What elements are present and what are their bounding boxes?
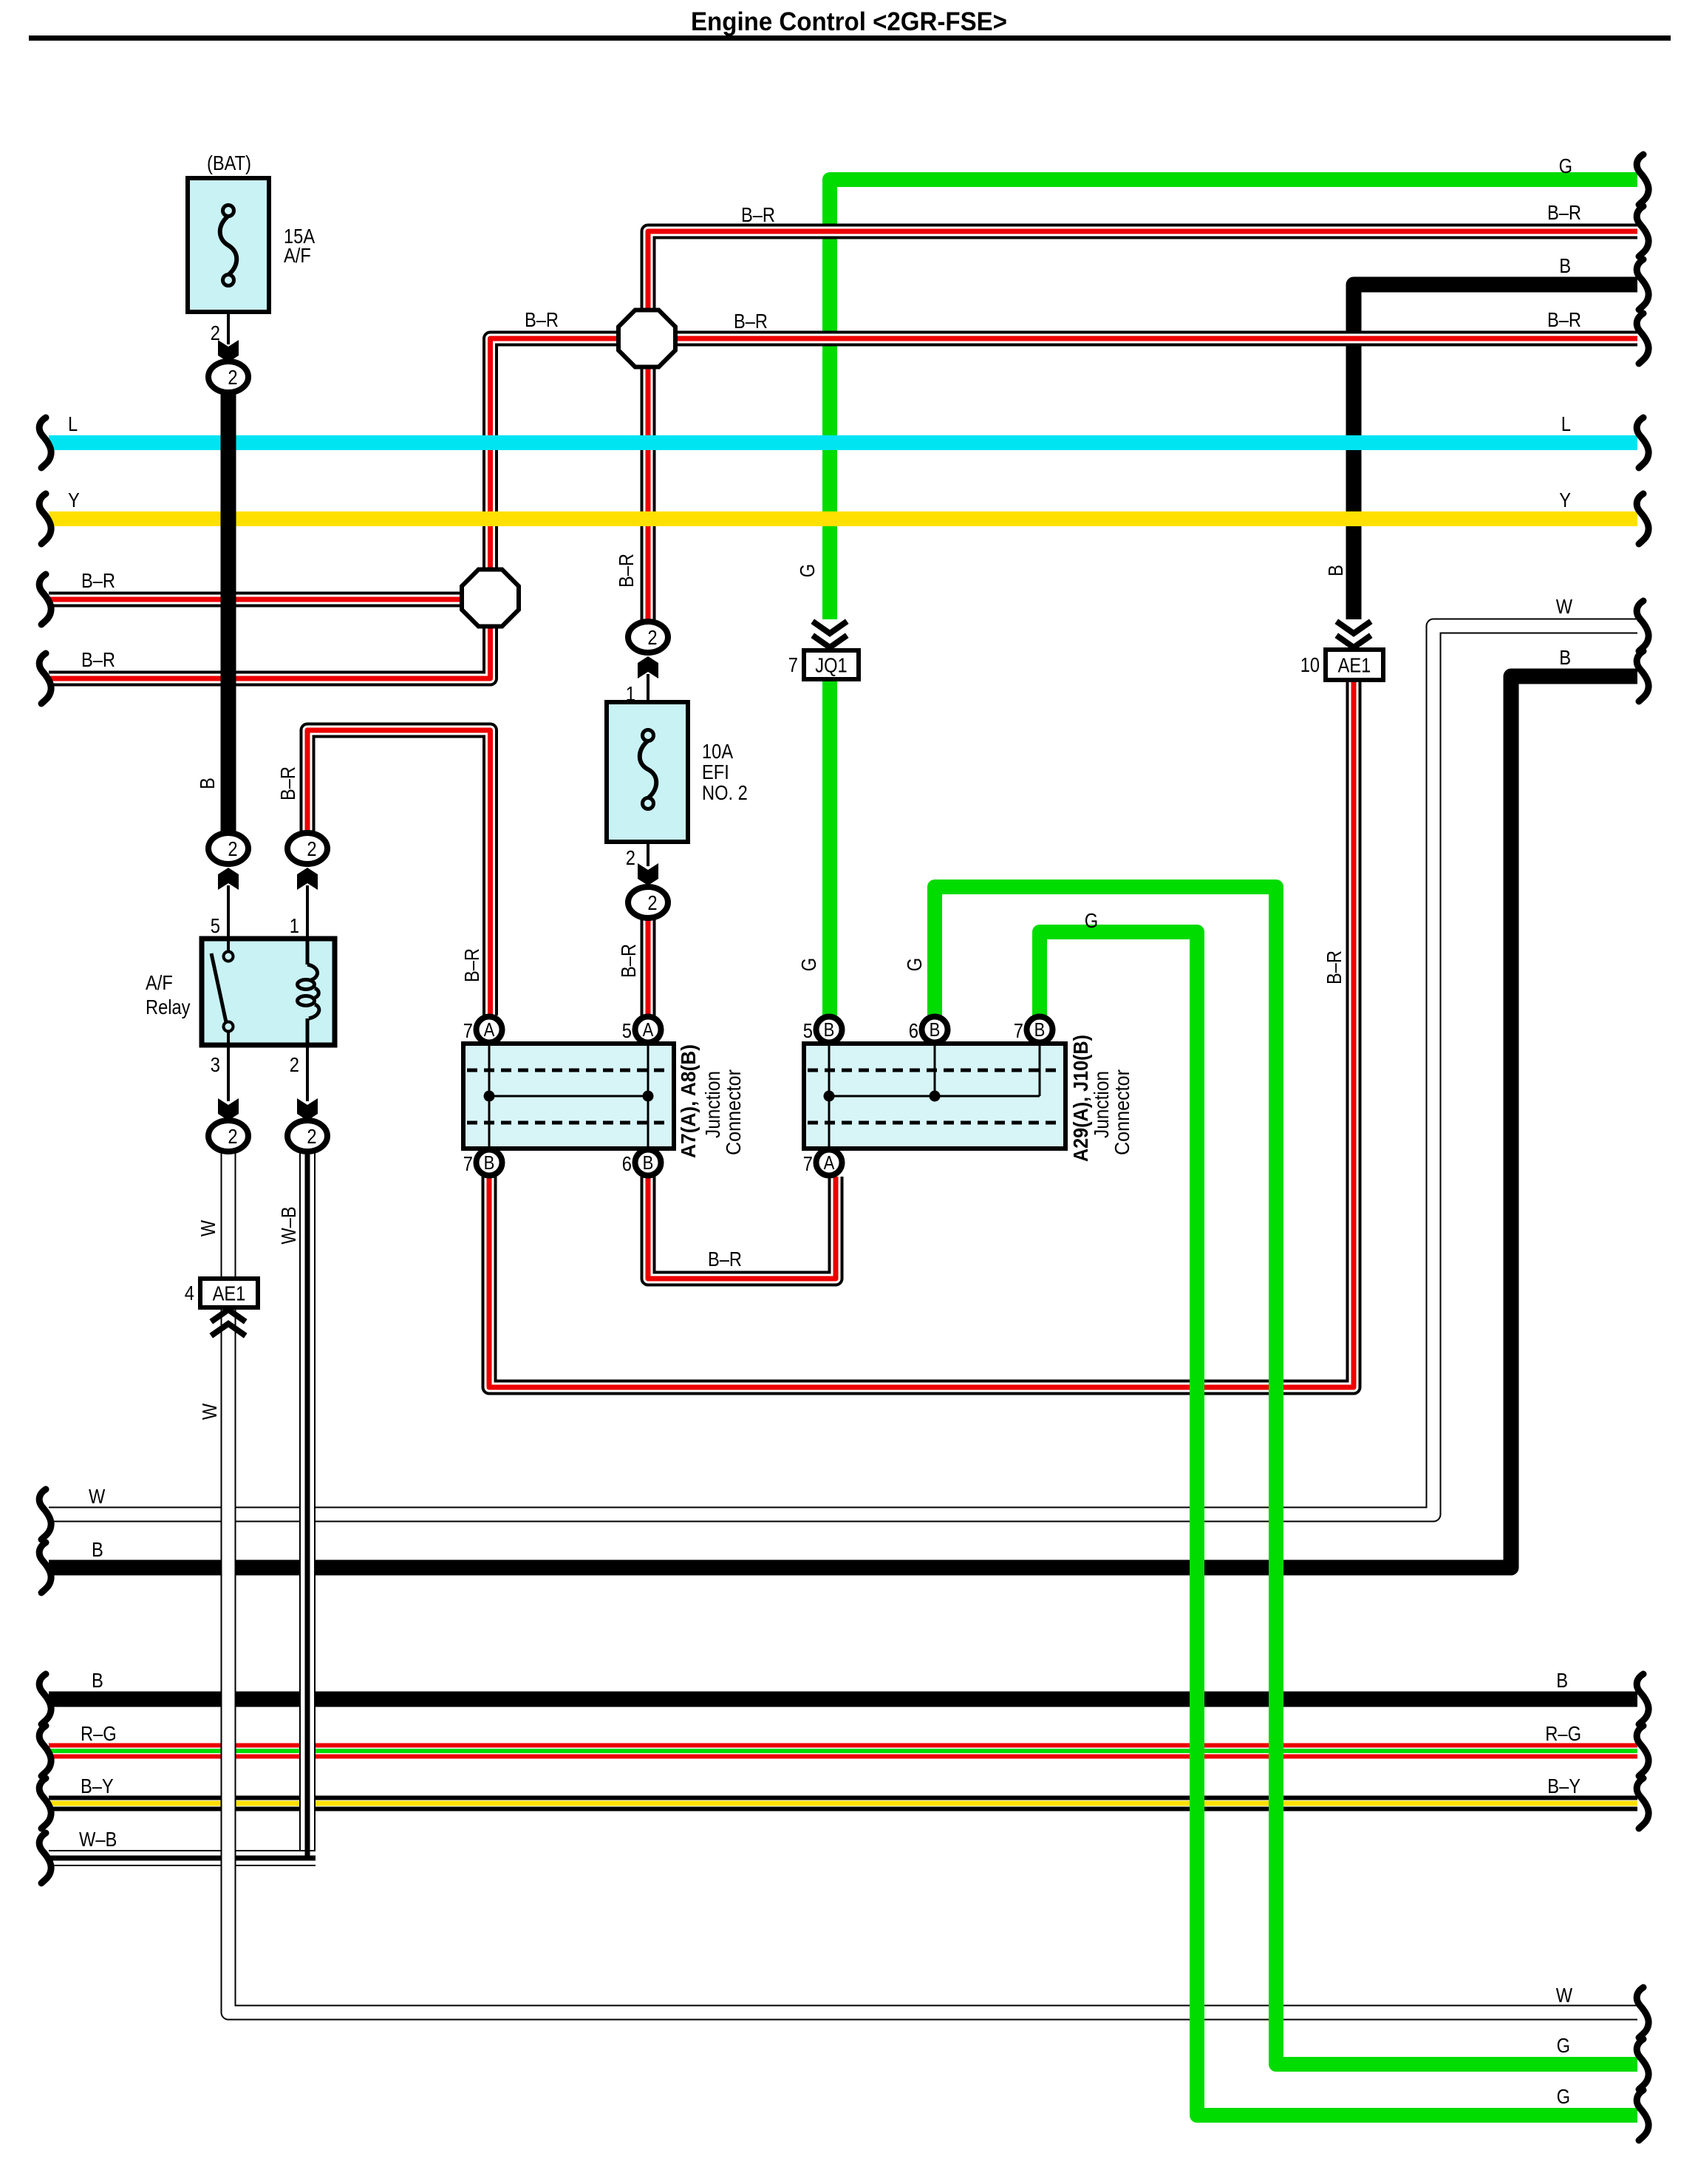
svg-text:10: 10 [1300,653,1320,676]
svg-text:B–R: B–R [734,310,768,333]
wire B thick from fuse to relay [221,390,236,835]
svg-text:G: G [903,958,926,971]
svg-text:Connector: Connector [1111,1069,1133,1155]
svg-text:B: B [1034,1018,1046,1041]
svg-text:B–R: B–R [276,766,299,800]
arrow double chevron out of AE1(4) [214,1310,243,1320]
svg-text:Engine Control <2GR-FSE>: Engine Control <2GR-FSE> [691,7,1007,36]
svg-text:B–R: B–R [460,948,483,982]
svg-text:G: G [797,958,820,971]
wire G path from junction2 7B down to bottom G (lower) [1040,932,1637,2115]
svg-text:EFI: EFI [702,761,729,783]
svg-text:2: 2 [290,1053,299,1076]
svg-text:G: G [1085,909,1098,932]
fuse 15A A/F [188,178,269,312]
pigtail left B-Y wire y=2440 [39,1778,51,1828]
svg-text:A: A [824,1151,835,1174]
svg-text:(BAT): (BAT) [207,152,251,174]
svg-text:7: 7 [463,1019,473,1042]
svg-text:3: 3 [211,1053,220,1076]
pin 7(B) [477,1150,502,1176]
title rule [29,35,1671,41]
connector oval 2 relay pin5 feed [208,833,248,864]
svg-text:7: 7 [803,1152,813,1175]
svg-text:B–R: B–R [617,944,640,978]
svg-text:Relay: Relay [146,996,191,1018]
svg-text:6: 6 [909,1019,918,1042]
pigtail right L wire y=599 [1637,418,1648,468]
pigtail right B-R wire y=313 [1637,206,1648,256]
pin 7(B) [1027,1017,1053,1043]
svg-text:B: B [824,1018,835,1041]
pin 5(B) [816,1017,842,1043]
svg-text:AE1: AE1 [1338,654,1371,677]
svg-text:Y: Y [68,489,80,511]
svg-text:A: A [643,1018,654,1041]
wire B horizontal y2121 + right riser [49,676,1637,1568]
wire B-R vertical x877 lower (fuse EFI to junction) [641,918,656,1017]
pigtail left Y wire y=702 [39,494,51,544]
svg-text:R–G: R–G [81,1722,117,1745]
pigtail left L wire y=599 [39,418,51,468]
wire G path from junction2 6B down to bottom G [935,887,1637,2064]
pigtail left B wire y=2121 [39,1542,51,1593]
fuse 10A EFI NO. 2 [607,702,688,842]
wire W from relay pin3 via AE1(4) to bottom [228,1150,1637,2013]
svg-text:7: 7 [788,653,798,676]
svg-text:B: B [92,1538,103,1561]
connector oval 2 relay pin2 [287,1120,327,1151]
connector oval 2 below fuse [208,361,248,392]
svg-text:B–Y: B–Y [1547,1775,1581,1797]
pigtail right G wire y=243 [1637,154,1648,205]
svg-text:2: 2 [307,1125,316,1148]
pigtail left B-R wire y=811 [39,574,51,625]
pigtail right B-R wire y=458 [1637,313,1648,364]
svg-text:B–R: B–R [525,308,559,331]
svg-text:B–R: B–R [1547,201,1581,224]
svg-text:B: B [196,778,219,789]
svg-text:A/F: A/F [146,971,173,994]
pigtail left W-B wire y=2514 [39,1833,51,1883]
relay switch [227,939,230,952]
pigtail right G wire y=2793 [1637,2039,1648,2089]
svg-text:B–R: B–R [1323,950,1346,984]
svg-text:6: 6 [622,1152,632,1175]
svg-text:A7(A), A8(B): A7(A), A8(B) [677,1044,700,1158]
svg-text:7: 7 [1014,1019,1023,1042]
connector oval 2 relay pin3 [208,1120,248,1151]
pigtail right B wire y=915 [1637,651,1648,701]
svg-text:B–R: B–R [741,203,775,226]
junction connector A7(A),A8(B) box [463,1044,674,1149]
wire G vertical JQ1 lower [822,680,837,1017]
svg-text:G: G [796,564,819,577]
svg-text:2: 2 [647,891,657,914]
svg-text:5: 5 [622,1019,632,1042]
arrow into oval [638,656,658,678]
wire B-R left pigtail y811 [49,592,463,608]
arrow double chevron into JQ1 [815,623,845,633]
pigtail left R-G wire y=2369 [39,1726,51,1776]
svg-text:2: 2 [228,1125,237,1148]
junction connector A29(A),J10(B) box [804,1044,1065,1149]
svg-text:JQ1: JQ1 [815,654,847,677]
svg-text:B: B [1556,1669,1568,1692]
svg-text:5: 5 [803,1019,813,1042]
svg-text:AE1: AE1 [213,1282,246,1305]
connector oval 2 below EFI fuse [628,887,668,918]
svg-text:R–G: R–G [1545,1722,1581,1745]
pin 7(A) [816,1150,842,1176]
svg-text:G: G [1557,2034,1570,2057]
svg-text:W–B: W–B [79,1828,117,1851]
svg-text:G: G [1557,2085,1570,2108]
relay coil [306,939,310,965]
wire R-G horizontal y2369 [49,1744,1637,1759]
svg-text:L: L [68,412,78,435]
pigtail left B-R wire y=918 [39,653,51,704]
svg-text:G: G [1559,154,1572,177]
svg-text:2: 2 [228,837,237,860]
svg-text:B: B [930,1018,941,1041]
pin 7(A) [477,1017,502,1043]
svg-text:B–Y: B–Y [81,1775,114,1797]
arrow double chevron into AE1 [1339,623,1368,633]
svg-text:A29(A), J10(B): A29(A), J10(B) [1069,1035,1092,1162]
svg-text:L: L [1561,412,1571,435]
svg-text:B: B [1559,646,1571,669]
svg-text:W: W [197,1219,219,1236]
junction octagon J1 [618,310,675,367]
connector oval 2 relay pin1 feed [287,833,327,864]
connector box AE1 pin4 [200,1279,258,1307]
svg-text:1: 1 [290,914,299,937]
wire B-Y horizontal y2440 [49,1796,1637,1812]
wire B-R from AE1(10) down-left-up to junction A7 pin 7B [489,680,1354,1387]
svg-text:2: 2 [307,837,316,860]
svg-text:B–R: B–R [708,1248,742,1270]
pigtail right B-Y wire y=2440 [1637,1778,1648,1828]
wire B-R relay coil feed [307,730,491,1016]
svg-text:5: 5 [211,914,220,937]
svg-text:2: 2 [626,846,635,869]
svg-text:10A: 10A [702,740,733,763]
svg-text:W–B: W–B [277,1206,300,1244]
svg-text:W: W [198,1403,221,1420]
svg-text:W: W [1556,595,1573,618]
svg-text:Connector: Connector [722,1069,745,1155]
connector box JQ1 [804,650,859,679]
wire W horizontal y2049 + right riser [49,626,1637,1514]
svg-text:B: B [92,1669,103,1692]
svg-text:Junction: Junction [1090,1071,1113,1138]
svg-text:A: A [484,1018,495,1041]
svg-text:Y: Y [1559,489,1571,511]
wire W-B horizontal y2514 [49,1850,316,1866]
wire G horizontal top (node G right) [830,180,1637,619]
pin 5(A) [635,1017,661,1043]
wire B-R horizontal y458 [49,339,1637,678]
arrows into ovals [218,868,239,890]
connector box AE1 pin10 [1326,650,1383,680]
wire B thick y385 + vertical to AE1 [1354,285,1637,619]
pigtail right R-G wire y=2369 [1637,1726,1648,1776]
pigtail left B wire y=2299 [39,1674,51,1724]
wire B horizontal y2299 [49,1692,1637,1707]
wire W-B from relay pin2 to W-B horizontal [299,1150,316,1850]
wire B-R U between junction connectors [648,1177,836,1279]
pigtail left W wire y=2049 [39,1489,51,1540]
svg-text:B: B [643,1151,654,1174]
svg-text:B–R: B–R [81,569,115,592]
svg-text:B–R: B–R [1547,308,1581,331]
pigtail right Y wire y=702 [1637,494,1648,544]
svg-text:B: B [1559,254,1571,277]
junction octagon J2 [462,570,519,627]
svg-text:B: B [484,1151,495,1174]
pin 6(B) [922,1017,948,1043]
svg-text:B–R: B–R [615,554,638,588]
relay A/F Relay box [202,939,335,1045]
wire Y yellow [49,511,1637,526]
connector oval 2 above EFI fuse [628,622,668,653]
pigtail right W wire y=2723 [1637,1987,1648,2038]
wire L cyan [49,435,1637,450]
svg-text:A/F: A/F [284,244,311,267]
svg-text:2: 2 [228,366,237,389]
svg-text:NO. 2: NO. 2 [702,781,748,804]
pigtail right B wire y=2299 [1637,1674,1648,1724]
wire B-R horizontal y313 [648,231,1637,622]
pigtail right B wire y=385 [1637,259,1648,310]
svg-text:W: W [89,1485,106,1508]
svg-text:4: 4 [185,1282,194,1304]
svg-text:2: 2 [647,626,657,649]
svg-text:B: B [1324,565,1347,576]
svg-text:7: 7 [463,1152,473,1175]
svg-text:Junction: Junction [701,1071,724,1138]
svg-text:W: W [1556,1984,1573,2007]
pigtail right W wire y=847 [1637,601,1648,651]
pin 6(B) [635,1150,661,1176]
pigtail right G wire y=2862 [1637,2090,1648,2140]
svg-text:B–R: B–R [81,648,115,671]
